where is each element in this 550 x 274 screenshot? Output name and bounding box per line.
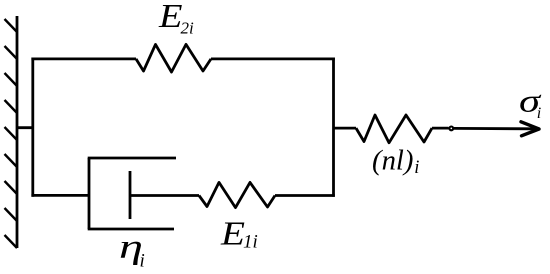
wall hatch 3 [5, 73, 18, 86]
svg-text:i: i [414, 158, 419, 178]
wall hatch 9 [5, 235, 18, 248]
wire bottom-right horizontal [275, 194, 335, 197]
arrow shaft [454, 127, 536, 130]
wall hatch 1 [5, 19, 18, 32]
wire top-left horizontal [31, 58, 136, 61]
dashpot piston rod [130, 194, 199, 197]
spring E1i [199, 182, 275, 207]
wall hatch 2 [5, 46, 18, 59]
wire left vertical [31, 58, 34, 197]
svg-text:i: i [537, 105, 541, 122]
svg-text:(nl): (nl) [372, 145, 414, 176]
fixed wall vertical line [16, 16, 19, 248]
wire right vertical [332, 58, 335, 197]
arrowhead [521, 122, 539, 136]
wall hatch 6 [5, 154, 18, 167]
spring E2i [136, 44, 211, 72]
wire wall stub [16, 126, 34, 129]
node circle [449, 126, 453, 130]
wire bottom-left horizontal [31, 194, 89, 197]
svg-text:E: E [158, 0, 183, 35]
svg-text:1i: 1i [243, 232, 258, 253]
wall hatch 5 [5, 127, 18, 140]
wire top-right horizontal [211, 58, 335, 61]
spring (nl)i [356, 115, 432, 143]
svg-text:2i: 2i [181, 18, 195, 37]
dashpot cylinder left wall [88, 158, 91, 229]
svg-text:i: i [140, 251, 145, 272]
wall hatch 4 [5, 100, 18, 113]
dashpot cylinder top [88, 157, 176, 160]
wall hatch 7 [5, 181, 18, 194]
wire middle output [334, 127, 357, 130]
wire to node [432, 127, 449, 130]
wall hatch 8 [5, 208, 18, 221]
dashpot piston [129, 171, 132, 219]
dashpot cylinder bottom [88, 228, 174, 231]
svg-text:E: E [220, 215, 245, 252]
